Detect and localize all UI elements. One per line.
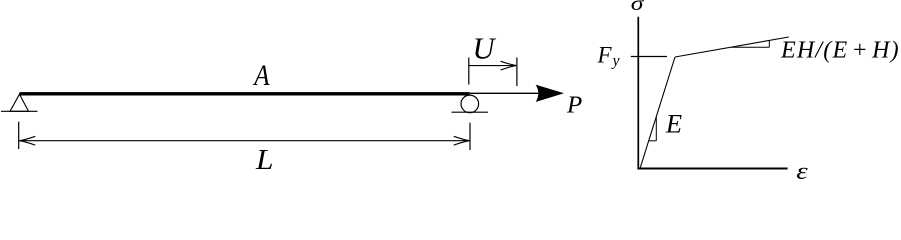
- svg-text:U: U: [472, 32, 496, 66]
- svg-text:EH/(E + H): EH/(E + H): [780, 38, 900, 64]
- length dimension right arrowhead: [454, 136, 470, 145]
- roller support circle: [461, 95, 479, 113]
- displacement dimension arrowhead: [501, 61, 517, 70]
- stress axis (vertical): [637, 17, 639, 170]
- strain axis (horizontal): [638, 168, 788, 170]
- svg-text:L: L: [255, 145, 274, 176]
- pin support ground line: [1, 110, 38, 112]
- length dimension left extension line: [18, 122, 20, 149]
- hardening slope indicator horizontal leg: [732, 46, 770, 48]
- length dimension right extension line: [469, 123, 471, 150]
- roller support ground line: [452, 111, 489, 113]
- displacement dimension left tick: [468, 58, 470, 85]
- svg-text:A: A: [253, 60, 271, 92]
- length dimension left arrowhead: [19, 136, 35, 145]
- elastic branch line: [640, 57, 675, 169]
- elastic slope indicator vertical leg: [655, 117, 657, 141]
- load line P: [470, 92, 540, 94]
- svg-text:Fy: Fy: [597, 42, 620, 69]
- length dimension line: [20, 140, 469, 142]
- displacement dimension right tick: [516, 58, 518, 87]
- hardening branch line: [675, 37, 789, 57]
- bar (axial member): [20, 92, 470, 95]
- svg-text:σ: σ: [631, 0, 645, 15]
- svg-text:E: E: [665, 109, 682, 139]
- displacement dimension arrow line: [469, 65, 516, 67]
- pin support triangle: [10, 94, 29, 111]
- elastic slope indicator horizontal leg: [649, 140, 656, 142]
- hardening slope indicator vertical leg: [768, 41, 770, 48]
- svg-text:ε: ε: [796, 157, 808, 180]
- load arrowhead P: [536, 85, 564, 102]
- svg-text:P: P: [566, 91, 582, 118]
- yield stress tick Fy: [631, 56, 667, 58]
